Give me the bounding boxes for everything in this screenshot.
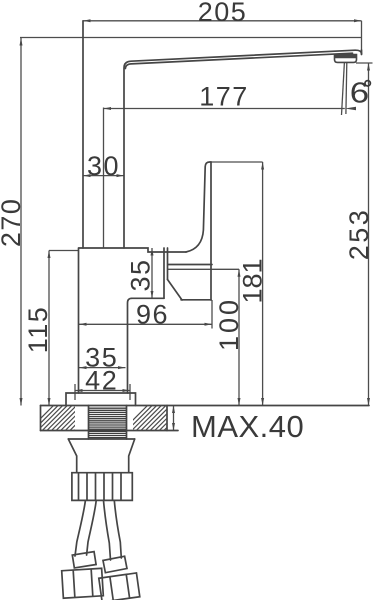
svg-text:253: 253 xyxy=(344,208,373,261)
svg-text:100: 100 xyxy=(214,297,244,351)
svg-text:30: 30 xyxy=(87,151,120,181)
svg-text:181: 181 xyxy=(238,258,268,303)
svg-text:205: 205 xyxy=(198,0,248,27)
svg-text:115: 115 xyxy=(23,306,53,354)
svg-text:MAX.40: MAX.40 xyxy=(191,409,304,444)
svg-text:96: 96 xyxy=(136,299,169,329)
svg-text:270: 270 xyxy=(0,198,26,248)
svg-text:35: 35 xyxy=(126,258,156,291)
svg-text:177: 177 xyxy=(199,81,249,111)
svg-text:42: 42 xyxy=(85,366,118,396)
